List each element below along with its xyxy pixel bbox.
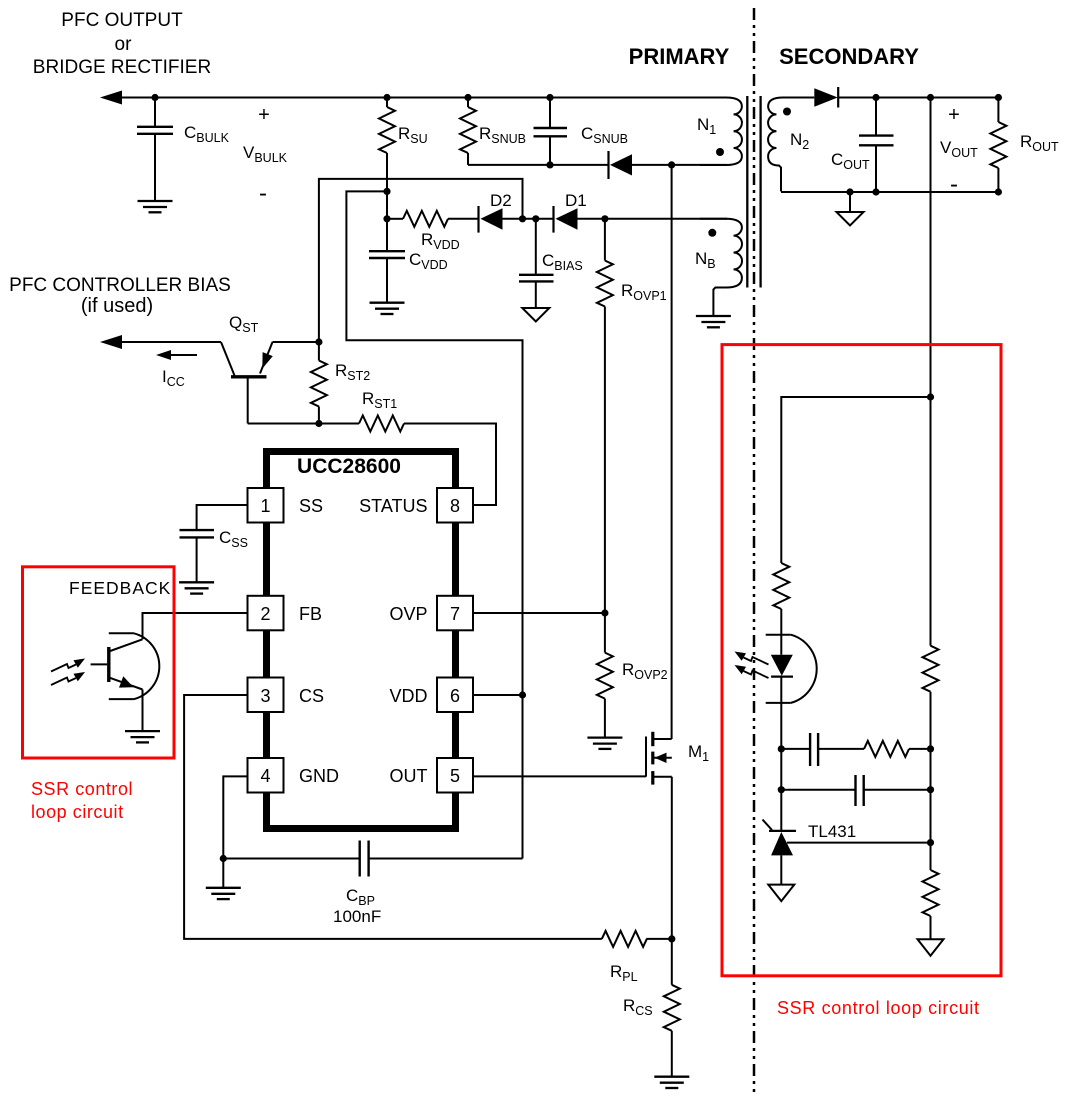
svg-text:OVP: OVP [389,604,427,624]
wire right divider branch [930,397,932,646]
ground triangle under TL431 [768,885,794,902]
capacitor CBULK [137,98,230,202]
pin 2 FB [248,596,284,631]
wire pin6 VDD [473,694,523,696]
svg-text:(if used): (if used) [81,295,153,317]
ground under opto emitter [125,731,160,742]
wire W2/W3 long loop to CBP [346,191,522,858]
pin 4 GND [248,758,284,793]
pin 8 STATUS [437,488,473,523]
svg-text:-: - [950,171,958,198]
svg-text:+: + [948,104,960,126]
svg-text:CS: CS [299,686,324,706]
wire M1 drain line from N1 bottom [671,165,673,739]
pin 3 CS [248,678,284,713]
phase dot N2 [783,108,791,116]
light arrows into opto [51,664,76,685]
svg-text:D2: D2 [490,191,512,210]
phase dot NB [708,229,716,237]
svg-text:FEEDBACK: FEEDBACK [69,578,171,598]
diode snubber [609,151,633,179]
op-amp/controller U1 UCC28600 body [267,452,456,829]
resistor ROVP1 [597,219,667,613]
ground under NB [696,316,731,327]
ground under CSS [179,582,214,593]
winding NB bias [700,219,742,316]
light arrows out of LED [744,657,769,678]
ground under CBULK [138,201,173,212]
svg-text:+: + [258,104,270,126]
svg-text:PFC CONTROLLER BIAS: PFC CONTROLLER BIAS [9,275,231,296]
wire TL431 ref row [787,842,931,844]
svg-text:TL431: TL431 [808,822,856,841]
capacitor COUT [831,98,894,193]
resistor RSU [379,98,428,219]
winding N2 secondary [768,98,814,192]
svg-text:4: 4 [260,766,270,786]
svg-text:OUT: OUT [390,766,428,786]
resistor divider lower right [923,870,939,916]
resistor RVDD [387,211,478,252]
wire snubber bottom [468,164,608,166]
svg-text:VDD: VDD [389,686,427,706]
transistor M1 MOSFET [646,732,709,939]
svg-text:3: 3 [260,686,270,706]
resistor RST1 in base wire to STATUS pin 8 [248,389,496,505]
arrow to PFC output [100,91,122,105]
svg-text:1: 1 [260,496,270,516]
wire pin5 OUT to M1 gate [473,775,646,777]
arrow ICC [156,350,197,389]
svg-text:SECONDARY: SECONDARY [779,44,919,69]
diode D2 [479,191,512,233]
ground under pin4 [206,888,241,899]
resistor ROVP2 [597,613,668,738]
ground under RCS [654,1077,689,1088]
ground triangle under CBIAS [522,308,549,322]
diode D1 [554,191,587,233]
node label PFC CONTROLLER BIAS [9,275,231,317]
pin 7 OVP [437,596,473,631]
winding N1 primary [700,98,742,166]
transistor QST [221,313,319,424]
resistor divider upper right [923,646,939,692]
svg-text:SSR control loop circuit: SSR control loop circuit [777,998,980,1018]
resistor comp R1 [864,741,909,757]
pin 5 OUT [437,758,473,793]
capacitor CSNUB [534,98,629,165]
node LED cathode junction [778,745,785,752]
wire top bulk rail [110,97,727,99]
svg-text:5: 5 [450,766,460,786]
wire compensation row 2 [781,789,855,791]
node label PFC OUTPUT / BRIDGE RECTIFIER [33,10,211,78]
wire collector to PFC bias arrow [110,341,221,343]
diode secondary rectifier [814,87,838,108]
label VOUT plus/minus [940,104,978,198]
pin 1 SS [248,488,284,523]
wire pin4 GND [223,776,247,858]
capacitor CVDD [369,219,448,303]
wire pin7 OVP [473,612,605,614]
phase dot N1 [716,148,724,156]
wire VOUT sense line down [930,98,932,398]
label SSR control loop circuit (left) [31,779,133,822]
capacitor comp C2 [854,775,856,806]
node comp row 2 junction [778,786,785,793]
resistor ROUT [990,98,1059,193]
ground triangle right divider [918,939,944,956]
svg-text:FB: FB [299,604,322,624]
svg-text:-: - [259,180,267,207]
node bulk junction dots [151,94,158,101]
svg-text:SSR control: SSR control [31,779,133,799]
svg-text:STATUS: STATUS [359,496,427,516]
svg-text:D1: D1 [565,191,587,210]
capacitor CSS [180,528,248,582]
wire pin1 to CSS [197,505,248,530]
arrow to PFC controller bias [100,335,122,349]
svg-text:6: 6 [450,686,460,706]
capacitor CBP 100nF [223,841,522,927]
resistor RPL [602,931,672,984]
resistor upper divider [773,563,789,609]
red box SSR control loop [722,345,1001,976]
shunt regulator TL431 [763,820,857,885]
pin 6 VDD [437,678,473,713]
svg-text:UCC28600: UCC28600 [297,455,401,478]
resistor RSNUB [460,98,526,165]
opto LED U2 [766,635,817,749]
capacitor CBIAS [519,219,583,308]
wire between D2 and D1 [503,218,554,220]
svg-text:GND: GND [299,766,339,786]
svg-text:8: 8 [450,496,460,516]
wire secondary bottom rail [781,191,998,193]
wire D1 to NB winding [578,218,728,220]
wire secondary top rail [838,97,998,99]
ground under CVDD [370,303,405,314]
node VOUT sense junction [927,393,934,400]
resistor RST2 [311,342,370,424]
resistor RCS [623,939,680,1077]
label VBULK plus/minus [243,104,288,207]
svg-text:7: 7 [450,604,460,624]
svg-text:PRIMARY: PRIMARY [629,44,730,69]
wire compensation row 1 [781,748,810,750]
wire sense to divider branch [781,397,930,563]
wire pin2 FB to optocoupler [143,613,248,639]
opto-transistor U2 feedback [91,633,160,731]
svg-text:or: or [115,34,133,55]
dot CVDD junction [383,215,390,222]
svg-text:BRIDGE RECTIFIER: BRIDGE RECTIFIER [33,57,211,78]
wire LED cathode down [780,749,782,831]
transformer core lines [746,96,748,288]
svg-text:PFC OUTPUT: PFC OUTPUT [61,10,183,31]
svg-text:loop circuit: loop circuit [31,802,124,822]
svg-text:100nF: 100nF [333,907,381,926]
isolation dash-dot line [753,8,756,1095]
red box FEEDBACK [23,567,175,758]
svg-text:2: 2 [260,604,270,624]
ground under ROVP2 [587,738,622,749]
svg-text:SS: SS [299,496,323,516]
wire W1 from RST2 top to D2 cathode junction [319,179,523,342]
capacitor comp C1 [809,733,811,766]
ground triangle secondary [849,192,851,212]
wire pin3 CS sense loop [184,695,602,939]
